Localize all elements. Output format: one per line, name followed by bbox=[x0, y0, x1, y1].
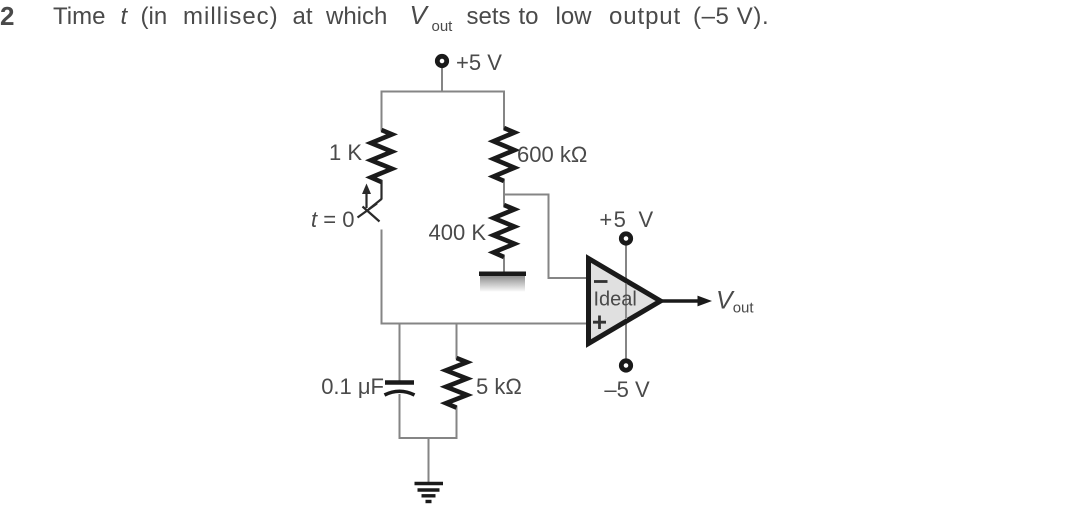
svg-text:400 K: 400 K bbox=[429, 220, 487, 245]
switch SW1 opening arrow head bbox=[362, 184, 371, 195]
wire plus input horizontal bbox=[381, 323, 591, 325]
output wire with arrow bbox=[662, 299, 703, 302]
svg-text:600 kΩ: 600 kΩ bbox=[517, 142, 587, 167]
svg-text:t = 0: t = 0 bbox=[311, 207, 354, 232]
svg-text:0.1 μF: 0.1 μF bbox=[321, 374, 384, 399]
svg-text:1 K: 1 K bbox=[329, 140, 362, 165]
svg-text:+5 V: +5 V bbox=[599, 207, 654, 232]
resistor R4 5k bbox=[446, 358, 467, 408]
wire 600k-400k junction to minus input bbox=[504, 195, 590, 279]
resistor R2 600k bbox=[494, 128, 515, 181]
svg-text:Timet(inmillisec)atwhichVoutse: Timet(inmillisec)atwhichVoutsetstolowout… bbox=[53, 0, 769, 35]
wire capacitor bottom bbox=[399, 394, 401, 439]
capacitor C1 0.1uF top plate bbox=[385, 380, 414, 384]
wire 400k to ground bar bbox=[503, 256, 505, 273]
wire ground stem bbox=[428, 438, 430, 483]
capacitor C1 0.1uF bottom (curved) plate bbox=[385, 391, 415, 395]
op-amp minus input mark bbox=[594, 280, 608, 283]
wire opamp supply (inside triangle) bbox=[625, 284, 627, 320]
wire 5k top bbox=[456, 324, 458, 360]
wire 5k bottom bbox=[456, 406, 458, 439]
wire below switch to plus-node bbox=[381, 230, 383, 325]
svg-text:+5 V: +5 V bbox=[456, 50, 502, 75]
ground (bar) under 400k bbox=[479, 272, 526, 292]
wire between 600k and 400k bbox=[503, 180, 505, 206]
svg-text:5 kΩ: 5 kΩ bbox=[476, 374, 522, 399]
switch SW1 (opens at t=0) bbox=[358, 180, 382, 222]
resistor R1 1K bbox=[371, 130, 392, 182]
terminal +5V top bbox=[437, 56, 446, 65]
wire left vertical upper bbox=[381, 91, 383, 132]
svg-text:–5 V: –5 V bbox=[604, 377, 650, 402]
resistor R3 400k bbox=[494, 205, 515, 257]
op-amp plus input mark bbox=[593, 316, 606, 330]
ground (earth) bottom bbox=[415, 484, 444, 502]
svg-text:2: 2 bbox=[0, 1, 14, 31]
wire supply drop bbox=[441, 64, 443, 92]
op-amp U1 Ideal bbox=[589, 259, 661, 344]
wire top horizontal bbox=[382, 91, 505, 93]
terminal +5V opamp bbox=[621, 234, 630, 243]
wire right vertical upper bbox=[503, 91, 505, 130]
wire bottom horizontal bbox=[399, 437, 458, 439]
terminal -5V opamp bbox=[621, 361, 630, 370]
wire capacitor top bbox=[399, 324, 401, 381]
wire opamp top supply bbox=[625, 244, 627, 280]
wire opamp bottom supply bbox=[625, 322, 627, 360]
svg-text:Ideal: Ideal bbox=[594, 289, 637, 311]
